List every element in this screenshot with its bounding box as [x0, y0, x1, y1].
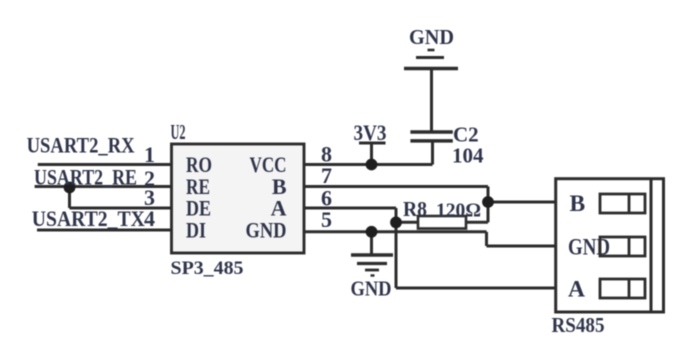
connector pin box A: [600, 279, 645, 298]
wire RE-to-DE vertical: [68, 187, 71, 209]
svg-text:USART2_RE: USART2_RE: [34, 165, 137, 190]
wire GND to connector: [487, 245, 558, 248]
junction dot A net / R8 left: [390, 217, 402, 229]
wire R8 left terminal: [396, 221, 418, 224]
svg-text:3V3: 3V3: [354, 120, 387, 145]
wire B to connector: [488, 201, 557, 204]
IC U2 SP3_485 transceiver body: [172, 144, 305, 253]
wire A vertical: [395, 208, 398, 288]
svg-text:R8: R8: [403, 197, 427, 221]
svg-text:7: 7: [321, 163, 332, 188]
junction dot B net: [482, 196, 494, 208]
wire pin4 DI (USART2_TX): [37, 229, 172, 232]
svg-text:USART2_RX: USART2_RX: [27, 133, 135, 158]
wire 3V3 stub: [370, 143, 373, 165]
svg-text:A: A: [568, 277, 585, 303]
ground symbol bottom: [351, 255, 393, 276]
wire pin6 A: [304, 207, 396, 210]
connector pin box B: [600, 194, 645, 213]
svg-text:120Ω: 120Ω: [436, 200, 481, 222]
capacitor C2 plates: [410, 132, 452, 141]
connector pin box GND: [600, 237, 645, 256]
wire pin1 RO (USART2_RX): [38, 163, 172, 166]
svg-text:4: 4: [144, 206, 155, 231]
connector inner divider: [650, 179, 653, 312]
wire pin8 VCC: [304, 163, 433, 166]
svg-text:GND: GND: [246, 218, 287, 243]
connector RS485 outer body: [556, 179, 664, 312]
svg-text:5: 5: [321, 207, 332, 232]
svg-text:USART2_TX: USART2_TX: [32, 206, 145, 231]
svg-text:B: B: [570, 191, 586, 217]
junction dot RE/DE: [64, 182, 76, 194]
svg-text:DI: DI: [186, 218, 206, 243]
wire pin7 B: [304, 185, 488, 188]
svg-text:1: 1: [144, 142, 155, 167]
power symbol 3V3 bar: [359, 142, 386, 145]
wire R8 right terminal: [466, 221, 488, 224]
wire C2 top leg: [430, 70, 433, 132]
wire B vertical to R8 right: [487, 187, 490, 223]
svg-text:RS485: RS485: [552, 313, 605, 337]
wire GND jog vertical: [485, 232, 488, 246]
wire pin5 GND: [304, 230, 487, 233]
svg-text:GND: GND: [351, 277, 392, 301]
ground symbol top (inverted): [404, 50, 458, 69]
svg-text:SP3_485: SP3_485: [171, 258, 244, 279]
wire C2 bottom leg: [431, 142, 434, 165]
svg-text:104: 104: [452, 144, 484, 168]
wire pin3 DE: [70, 207, 172, 210]
junction dot 3V3/VCC: [366, 159, 378, 171]
svg-text:U2: U2: [171, 120, 186, 144]
resistor R8 body: [418, 216, 466, 229]
wire pin2 RE (USART2_RE): [35, 185, 172, 188]
svg-text:GND: GND: [409, 25, 454, 49]
wire A to connector: [396, 287, 557, 290]
wire GND symbol stub: [370, 232, 373, 254]
junction dot GND net: [366, 226, 378, 238]
